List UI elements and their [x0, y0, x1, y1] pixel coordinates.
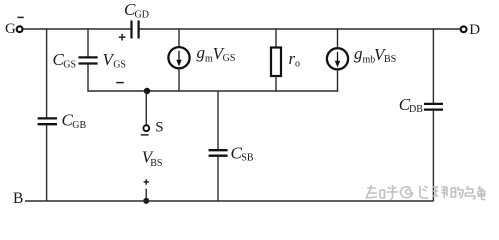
minus sign of V_GS (bottom) [116, 82, 124, 84]
wire: C_DB branch lower [432, 111, 434, 201]
wire: C_GB branch lower [46, 125, 48, 201]
svg-text:BS: BS [150, 158, 162, 169]
capacitor C_SB [209, 143, 254, 163]
wire: C_SB branch upper [217, 91, 219, 149]
capacitor C_DB [399, 95, 443, 115]
minus sign at G [17, 16, 23, 18]
wire: S branch from dot to S terminal [145, 91, 147, 125]
svg-text:GS: GS [223, 53, 236, 64]
飞 [420, 186, 429, 198]
svg-text:D: D [469, 22, 480, 38]
terminal S [143, 120, 163, 136]
terminal D [461, 22, 481, 38]
wire: stub above B node dot [145, 189, 147, 202]
wire: C_GB branch upper [46, 28, 48, 117]
watermark: 知乎 @飞翔的乌龟 (drawn strokes) [366, 185, 485, 200]
capacitor C_GB [38, 111, 87, 131]
翔 [433, 187, 447, 198]
terminal G [5, 21, 23, 37]
wire: C_GS branch lower [87, 64, 89, 91]
svg-text:g: g [197, 43, 206, 62]
龟 [478, 186, 485, 200]
svg-text:SB: SB [241, 153, 254, 164]
svg-text:BS: BS [384, 54, 396, 65]
label V_GS [103, 50, 126, 70]
svg-text:GB: GB [72, 120, 86, 131]
乎 [387, 185, 399, 200]
capacitor C_GS [53, 50, 98, 70]
wire: middle (source node) [87, 90, 338, 92]
wire: bottom (bulk node) [25, 200, 433, 202]
@ [401, 187, 413, 198]
svg-text:GD: GD [135, 9, 149, 20]
svg-text:g: g [354, 44, 363, 63]
svg-text:GS: GS [113, 60, 126, 71]
wire: C_SB branch lower [217, 157, 219, 201]
wire: top, C_GD right plate to D [139, 28, 461, 30]
node junction dot on middle wire [144, 88, 150, 94]
svg-text:S: S [155, 120, 163, 136]
svg-text:GS: GS [63, 60, 76, 71]
乌 [465, 186, 475, 199]
svg-text:G: G [5, 21, 16, 37]
wire: top, G to C_GD left plate [23, 28, 131, 30]
minus sign below S [141, 134, 149, 136]
current source g_m V_GS [168, 28, 189, 91]
label g_mb V_BS [354, 44, 396, 65]
wire: C_GS branch upper [87, 28, 89, 57]
的 [451, 187, 463, 198]
wire: C_DB branch upper [432, 28, 434, 103]
capacitor C_GD [124, 0, 149, 39]
svg-text:o: o [295, 58, 300, 69]
resistor r_o [271, 28, 300, 91]
svg-text:DB: DB [409, 104, 423, 115]
plus sign above B node [144, 179, 149, 184]
知 [366, 185, 384, 198]
label V_BS [142, 148, 163, 170]
label g_m V_GS [197, 43, 236, 64]
node junction dot on bottom wire [143, 198, 149, 204]
plus sign of V_GS (top) [119, 34, 126, 41]
current source g_mb V_BS [327, 28, 348, 91]
svg-text:B: B [13, 190, 23, 207]
